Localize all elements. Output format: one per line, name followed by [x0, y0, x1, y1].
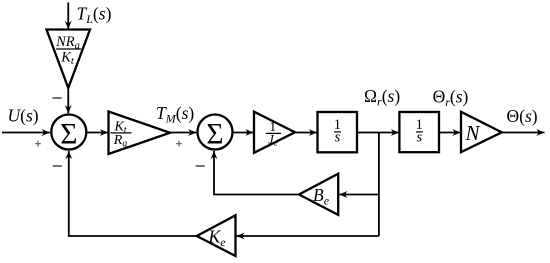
svg-text:Σ: Σ — [60, 118, 77, 150]
svg-text:U(s): U(s) — [8, 106, 39, 126]
svg-text:Θ(s): Θ(s) — [507, 106, 538, 126]
svg-text:s: s — [335, 129, 341, 145]
svg-text:Θr(s): Θr(s) — [433, 87, 469, 110]
svg-text:N: N — [465, 121, 481, 145]
svg-text:s: s — [416, 129, 422, 145]
svg-text:Je: Je — [268, 132, 278, 149]
svg-text:TL(s): TL(s) — [77, 4, 112, 27]
svg-text:Ke: Ke — [208, 227, 227, 250]
svg-text:Be: Be — [313, 185, 330, 208]
svg-text:Σ: Σ — [206, 118, 223, 150]
svg-text:TM(s): TM(s) — [156, 103, 194, 126]
svg-text:Kt: Kt — [60, 49, 75, 67]
svg-text:Ωr(s): Ωr(s) — [364, 86, 400, 109]
